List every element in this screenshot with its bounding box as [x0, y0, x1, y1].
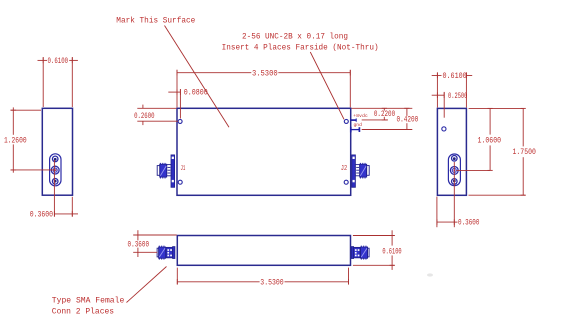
svg-text:1.2600: 1.2600 [4, 136, 27, 145]
svg-text:J1: J1 [181, 165, 186, 173]
dimension 3.5300 (main view width) [177, 70, 350, 108]
left view SMA bottom screw hole [52, 179, 58, 185]
right view body outline [437, 108, 466, 195]
svg-text:0.3600: 0.3600 [128, 241, 150, 250]
bottom view body outline [177, 236, 350, 266]
dimension 0.3600 (bottom view, top edge to connector center) [133, 230, 177, 257]
mounting hole top-right [344, 119, 348, 123]
right view SMA center conductor [450, 167, 458, 175]
dimension 1.0600 (top edge to connector center) [457, 108, 524, 170]
svg-text:0.0800: 0.0800 [184, 89, 208, 98]
svg-text:Type SMA Female: Type SMA Female [52, 297, 125, 306]
bottom view left SMA connector [157, 246, 175, 259]
SMA connector J2 (right, side profile) [352, 155, 369, 187]
left view SMA top screw hole [52, 156, 58, 162]
svg-text:0.6100: 0.6100 [382, 247, 401, 256]
dimension 0.2600 (top edge to hole) [137, 105, 178, 126]
left view SMA flange obround [50, 154, 61, 186]
gnd feedthrough terminal [351, 127, 360, 133]
main view body outline [177, 108, 351, 195]
dimension 3.5300 (bottom view width) [177, 268, 348, 285]
mounting hole bottom-right [344, 180, 348, 184]
svg-text:0.3600: 0.3600 [30, 210, 53, 219]
svg-text:3.5300: 3.5300 [252, 69, 278, 78]
dimension 1.2600 (left view, top edge to connector center) [11, 107, 57, 172]
+8vdc feedthrough pin [351, 118, 357, 121]
svg-text:0.2600: 0.2600 [134, 112, 155, 121]
right view SMA bottom screw hole [452, 179, 458, 185]
dimension 0.6100 (bottom view height) [353, 230, 395, 270]
right view hole centerline [443, 92, 445, 118]
svg-text:Insert 4 Places Farside (Not-T: Insert 4 Places Farside (Not-Thru) [222, 43, 379, 52]
svg-text:0.3600: 0.3600 [458, 219, 480, 228]
right view SMA flange obround [448, 154, 460, 186]
svg-text:3.5300: 3.5300 [260, 278, 284, 287]
dimension 0.6100 (left view width) [38, 57, 78, 107]
svg-text:+8vdc: +8vdc [353, 113, 368, 119]
svg-text:gnd: gnd [354, 122, 363, 128]
svg-text:Mark This Surface: Mark This Surface [116, 16, 195, 25]
dimension 0.0800 (edge to hole) [168, 89, 180, 119]
right view SMA top screw hole [452, 156, 458, 162]
dimension 0.3600 (right view, edge to connector center) [437, 162, 458, 227]
left view SMA center conductor [51, 166, 59, 174]
left view body outline [42, 108, 72, 195]
dimension 0.6100 (right view width) [432, 72, 473, 107]
svg-text:0.2200: 0.2200 [374, 110, 395, 119]
svg-text:1.0600: 1.0600 [478, 136, 502, 145]
faint scan speck [427, 273, 433, 276]
dimension 0.2200 (top edge to +8vdc pin) [352, 108, 413, 120]
leader: insert screws note [310, 52, 344, 119]
dimension 0.4200 (top edge to gnd terminal) [362, 108, 413, 129]
SMA connector J1 (left, side profile) [157, 155, 174, 187]
svg-text:0.4200: 0.4200 [396, 116, 418, 125]
svg-text:0.2500: 0.2500 [448, 92, 468, 101]
right view feedthrough hole [442, 127, 446, 131]
bottom view right SMA connector [351, 246, 369, 259]
mounting hole top-left [178, 119, 182, 123]
svg-text:1.7500: 1.7500 [513, 148, 536, 157]
svg-text:2-56 UNC-2B x 0.17 long: 2-56 UNC-2B x 0.17 long [242, 33, 348, 42]
leader: Mark This Surface [165, 26, 230, 128]
dimension 0.3600 (left view, connector center to back edge) [54, 160, 78, 217]
dimension 1.7500 (right view height) [469, 108, 526, 195]
svg-text:Conn 2 Places: Conn 2 Places [52, 307, 114, 316]
svg-text:0.6100: 0.6100 [48, 57, 69, 66]
mounting hole bottom-left [178, 180, 182, 184]
svg-text:0.6100: 0.6100 [442, 72, 466, 81]
dimension 0.2500 (edge to feedthrough hole) [432, 92, 445, 98]
leader: Type SMA Female [127, 267, 167, 303]
svg-text:J2: J2 [341, 165, 347, 173]
